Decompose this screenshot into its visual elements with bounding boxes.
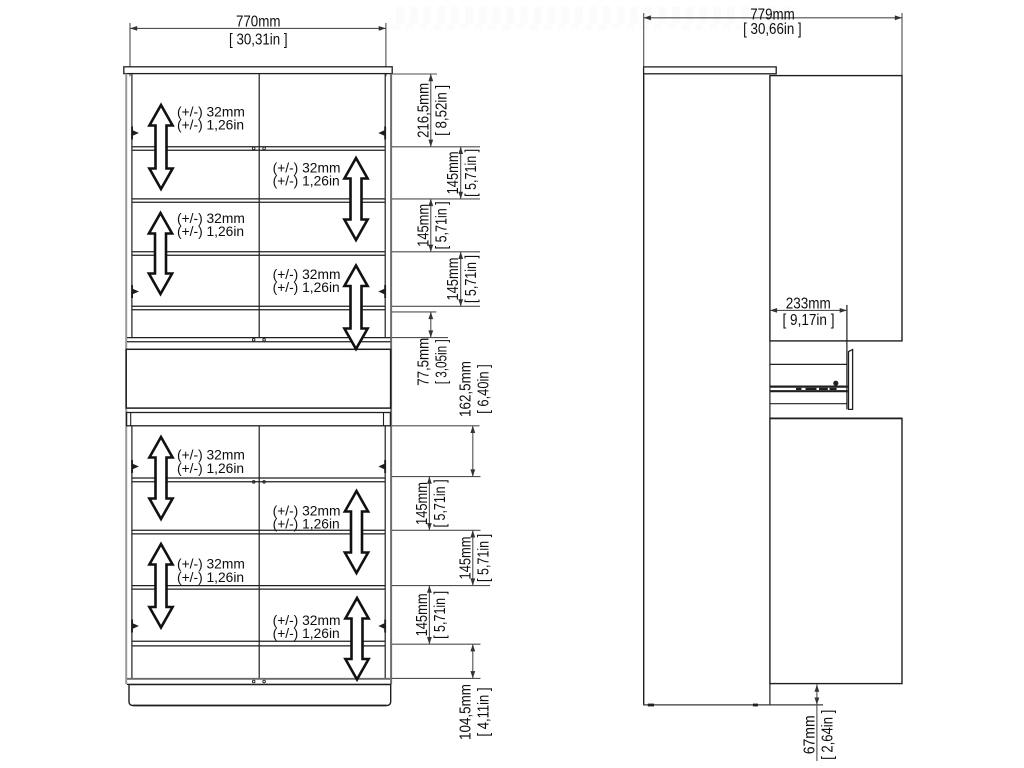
svg-text:[ 5,71in ]: [ 5,71in ] xyxy=(475,534,492,582)
svg-text:[ 2,64in ]: [ 2,64in ] xyxy=(819,710,836,760)
svg-text:[ 5,71in ]: [ 5,71in ] xyxy=(432,591,449,639)
svg-text:[ 30,31in ]: [ 30,31in ] xyxy=(229,31,288,48)
svg-text:216,5mm: 216,5mm xyxy=(415,83,432,138)
svg-text:77,5mm: 77,5mm xyxy=(415,338,432,386)
svg-text:[ 30,66in ]: [ 30,66in ] xyxy=(743,21,802,38)
svg-text:[ 9,17in ]: [ 9,17in ] xyxy=(783,312,835,329)
svg-text:(+/-) 1,26in: (+/-) 1,26in xyxy=(273,174,340,189)
svg-text:[ 5,71in ]: [ 5,71in ] xyxy=(433,201,450,249)
svg-text:[ 4,11in ]: [ 4,11in ] xyxy=(475,688,492,737)
svg-text:(+/-) 1,26in: (+/-) 1,26in xyxy=(273,280,340,295)
svg-text:145mm: 145mm xyxy=(414,482,431,525)
svg-text:[ 3,05in ]: [ 3,05in ] xyxy=(433,339,450,384)
svg-text:(+/-) 1,26in: (+/-) 1,26in xyxy=(177,461,244,476)
svg-text:(+/-) 1,26in: (+/-) 1,26in xyxy=(273,517,340,532)
svg-text:162,5mm: 162,5mm xyxy=(457,361,474,417)
svg-text:104,5mm: 104,5mm xyxy=(457,684,474,740)
svg-text:[ 8,52in ]: [ 8,52in ] xyxy=(433,85,450,136)
svg-text:(+/-) 1,26in: (+/-) 1,26in xyxy=(177,570,244,585)
svg-text:233mm: 233mm xyxy=(786,296,831,313)
svg-text:145mm: 145mm xyxy=(445,258,462,301)
svg-text:[ 5,71in ]: [ 5,71in ] xyxy=(463,255,480,303)
svg-text:[ 5,71in ]: [ 5,71in ] xyxy=(463,149,480,197)
svg-text:[ 5,71in ]: [ 5,71in ] xyxy=(432,479,449,527)
svg-text:(+/-) 1,26in: (+/-) 1,26in xyxy=(177,118,244,133)
svg-text:145mm: 145mm xyxy=(445,151,462,194)
svg-text:145mm: 145mm xyxy=(415,204,432,247)
svg-text:(+/-) 1,26in: (+/-) 1,26in xyxy=(273,626,340,641)
svg-text:770mm: 770mm xyxy=(236,14,281,31)
svg-text:145mm: 145mm xyxy=(457,536,474,579)
svg-text:(+/-) 1,26in: (+/-) 1,26in xyxy=(177,224,244,239)
svg-text:67mm: 67mm xyxy=(801,715,818,754)
svg-text:[ 6,40in ]: [ 6,40in ] xyxy=(475,364,492,414)
svg-text:145mm: 145mm xyxy=(414,593,431,636)
